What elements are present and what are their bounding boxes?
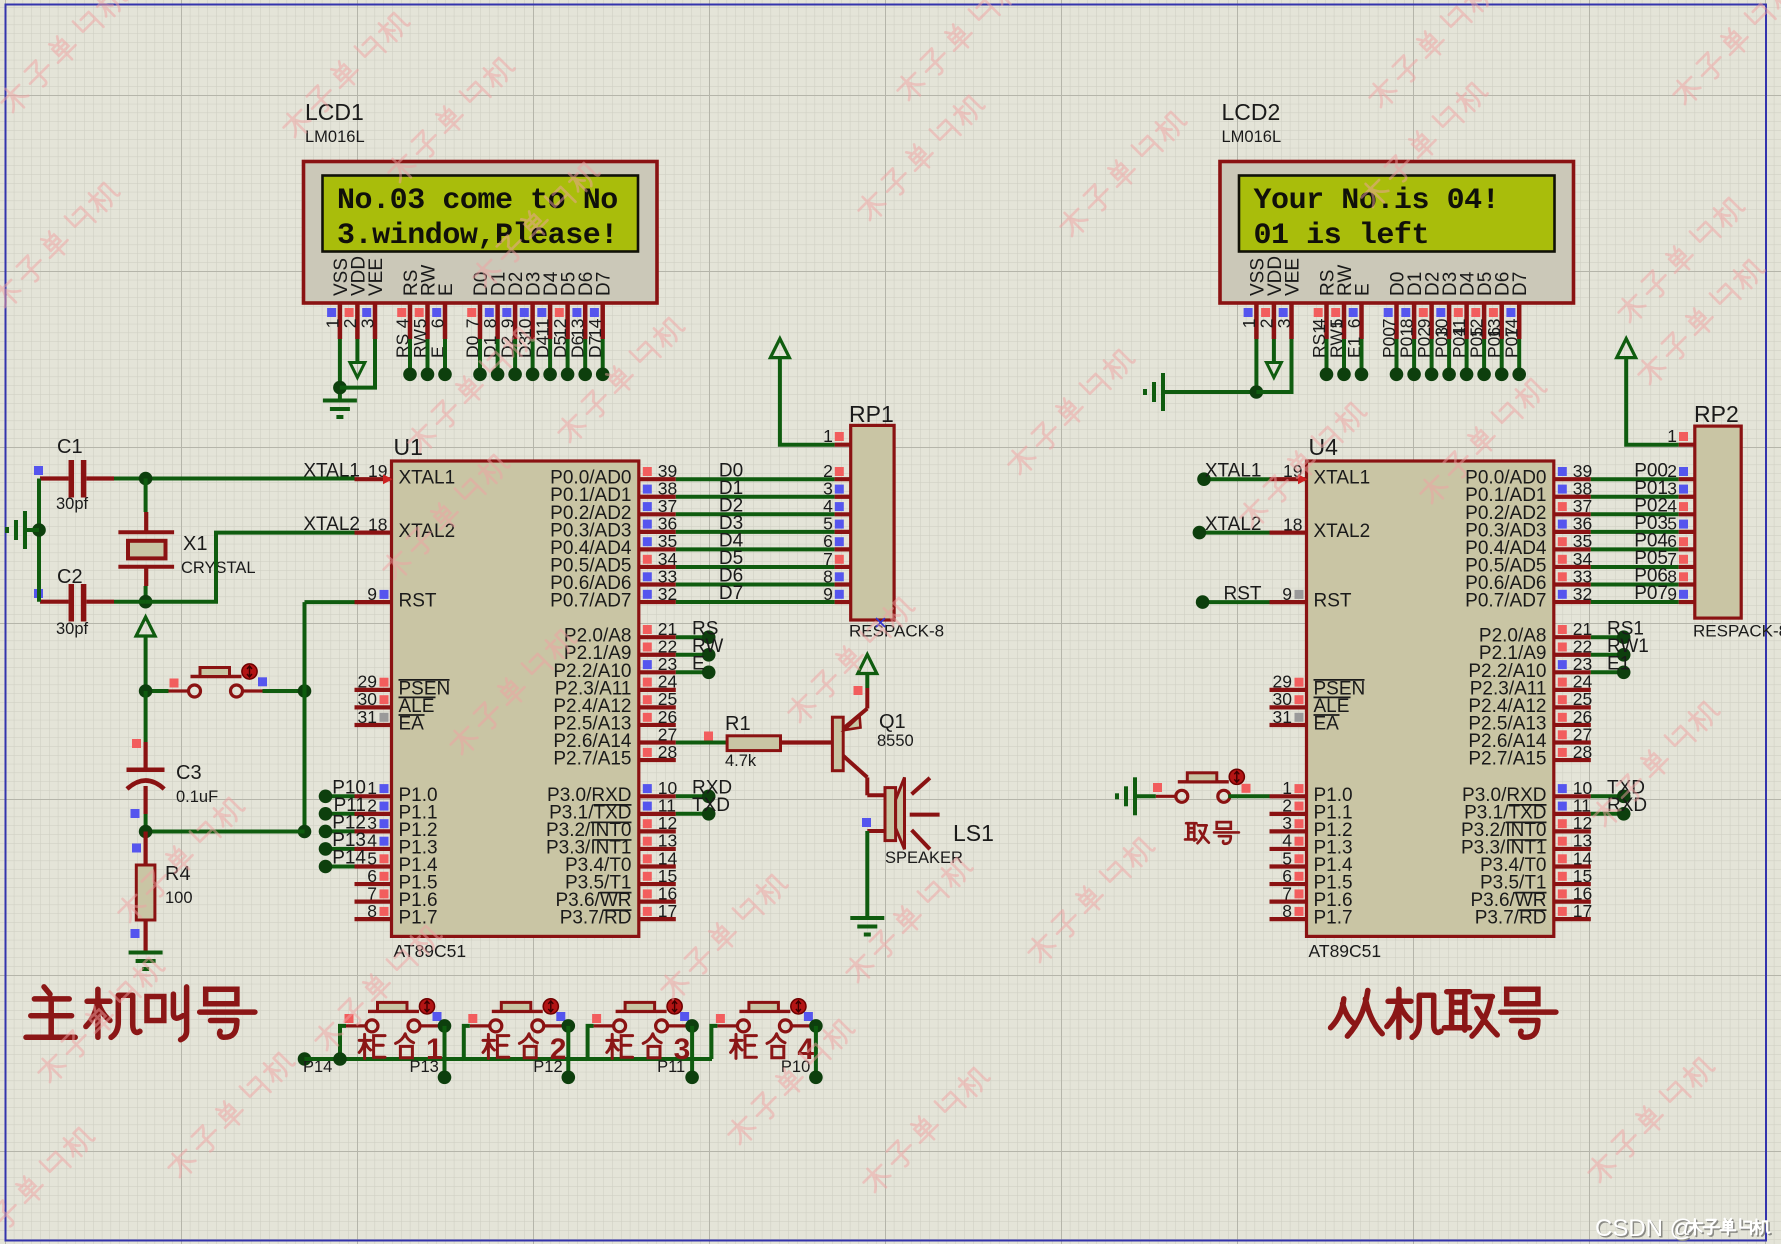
label 柜台4 (731, 1033, 815, 1066)
svg-text:32: 32 (658, 584, 677, 604)
svg-text:3: 3 (1274, 319, 1294, 329)
svg-text:RST: RST (1224, 583, 1262, 604)
ground below LS1 (850, 918, 884, 935)
wire XTAL1 net: C1 to U1.19 (114, 472, 355, 486)
svg-text:VEE: VEE (366, 258, 387, 296)
reset button (169, 664, 263, 697)
U4 pin 7 P1.6 (1270, 883, 1307, 903)
wire RP2 pin1 to power (1626, 357, 1679, 445)
state square button3 left (592, 1014, 601, 1023)
caption 从机取号 (1331, 989, 1556, 1037)
svg-text:R1: R1 (725, 713, 751, 735)
LCD LCD1 pin 10 (D3) (515, 272, 545, 358)
U4 pin 33 P0.6 (1554, 566, 1592, 586)
wire net P05 (U4 P0.5 to RP2 pin 7) (1591, 548, 1695, 569)
svg-text:17: 17 (1573, 901, 1592, 921)
wire LCD1 D4 stub end (543, 339, 557, 381)
LCD LCD2 pin 2 (VDD) (1256, 256, 1286, 339)
U4 pin 29 PSEN (1270, 672, 1307, 692)
wire button1 left lead (333, 1026, 347, 1066)
svg-text:CRYSTAL: CRYSTAL (181, 559, 256, 577)
caption 主机叫号 (26, 987, 255, 1040)
svg-text:9: 9 (823, 584, 833, 604)
mcu U4 AT89C51 (1307, 434, 1554, 961)
state square reset button right (258, 677, 267, 686)
LCD LCD1 pin 13 (D6) (568, 272, 598, 358)
U4 pin 1 P1.0 (1270, 778, 1307, 798)
resistor R1 4.7k (725, 713, 832, 770)
svg-text:C3: C3 (176, 762, 202, 784)
LCD LCD1 pin 12 (D5) (550, 272, 580, 358)
LCD LCD2 pin 10 (D3) (1432, 272, 1462, 358)
LCD LCD2 pin 6 (E) (1344, 283, 1374, 358)
state square R4 bottom (131, 929, 140, 938)
U4 pin 35 P0.4 (1554, 531, 1592, 551)
wire LCD2 VSS to ground (1165, 339, 1263, 399)
wire LCD1 RS stub end (403, 339, 417, 381)
U1 pin 12 P3.2 (639, 813, 677, 833)
state square button4 left (716, 1014, 725, 1023)
U4 pin 31 EA (1270, 707, 1307, 727)
state square button3 right (680, 1012, 689, 1021)
U1 pin 5 P1.4 (332, 848, 391, 869)
U4 pin 27 P2.6 (1554, 724, 1592, 744)
wire button right to RST riser (263, 684, 312, 698)
svg-text:E: E (692, 654, 705, 675)
power arrow (reset vcc) (136, 617, 155, 691)
power arrow above RP1 (770, 339, 789, 358)
U4 pin 9 RST (1270, 584, 1307, 604)
wire counter bus (305, 1057, 713, 1061)
svg-text:XTAL1: XTAL1 (399, 468, 456, 489)
wire net D0 (U1 P0.0 to RP1 pin 2) (676, 460, 851, 481)
wire net P10 (319, 790, 355, 804)
wire button2 left lead (464, 1026, 470, 1059)
wire net P12 (319, 825, 355, 839)
svg-text:AT89C51: AT89C51 (1309, 941, 1382, 961)
wire button3 left lead (588, 1026, 594, 1059)
ground left of C1/C2 (7, 511, 39, 549)
wire net P14 (319, 860, 355, 874)
svg-text:14: 14 (585, 318, 605, 338)
wire net RW1 (1591, 636, 1649, 662)
counter button 4 (717, 999, 811, 1032)
U1 pin 21 P2.0 (639, 619, 677, 639)
U1 pin 24 P2.3 (639, 672, 678, 692)
svg-text:28: 28 (1573, 742, 1592, 762)
U4 pin 12 P3.2 (1554, 813, 1592, 833)
wire button2 right drop (P12) (533, 1019, 575, 1084)
U1 pin 7 P1.6 (355, 883, 392, 903)
wire LS1 to ground (865, 831, 869, 918)
U1 pin 17 P3.7 (639, 901, 677, 921)
power arrow above RP2 (1617, 339, 1636, 358)
svg-text:4.7k: 4.7k (725, 752, 757, 770)
svg-text:30pf: 30pf (56, 620, 89, 638)
state square button2 left (468, 1014, 477, 1023)
svg-text:P1.7: P1.7 (399, 908, 438, 929)
RP1 pin 1 (823, 426, 851, 446)
svg-text:9: 9 (1282, 584, 1292, 604)
svg-text:RST: RST (399, 591, 437, 612)
wire RP1 pin1 to power (780, 357, 835, 445)
capacitor C3 0.1uF (127, 691, 219, 832)
wire net TXD (U4) (1591, 778, 1645, 804)
node XTAL2 label (303, 514, 360, 535)
U4 pin 17 P3.7 (1554, 901, 1592, 921)
wire net RST (U4) (1196, 583, 1270, 609)
U4 pin 32 P0.7 (1554, 584, 1592, 604)
counter button 1 (346, 999, 440, 1032)
wire LCD2 P07 stub end (1512, 339, 1526, 381)
state square C3 top (132, 739, 141, 748)
svg-text:XTAL2: XTAL2 (1314, 521, 1371, 542)
svg-text:30pf: 30pf (56, 495, 89, 513)
wire net RXD (U4) (1591, 795, 1647, 821)
wire LCD2 P04 stub end (1460, 339, 1474, 381)
ground below R4 (129, 953, 163, 970)
svg-text:C1: C1 (57, 436, 83, 458)
wire C2 to node (114, 600, 146, 604)
U4 pin 22 P2.1 (1554, 637, 1592, 657)
wire net P04 (U4 P0.4 to RP2 pin 6) (1591, 531, 1695, 552)
LCD LCD2 LM016L (1220, 99, 1574, 303)
U4 pin 36 P0.3 (1554, 514, 1592, 534)
U1 pin 23 P2.2 (639, 654, 677, 674)
wire take-button to U4 pin1 (1228, 794, 1269, 798)
svg-text:3: 3 (358, 319, 378, 329)
wire net D3 (U1 P0.3 to RP1 pin 5) (676, 513, 851, 534)
state square button2 right (556, 1012, 565, 1021)
wire net XTAL1 (U4) (1197, 460, 1269, 486)
U4 pin 26 P2.5 (1554, 707, 1592, 727)
wire net P02 (U4 P0.2 to RP2 pin 4) (1591, 496, 1695, 517)
speaker LS1 (867, 777, 994, 867)
mcu U1 AT89C51 (392, 434, 639, 961)
svg-text:01 is left: 01 is left (1254, 219, 1430, 253)
power (VDD down-arrow) LCD1 pin 2 (350, 339, 365, 378)
LCD LCD1 pin 5 (RW) (410, 265, 440, 358)
U1 pin 3 P1.2 (332, 813, 391, 834)
LCD LCD2 pin 14 (D7) (1502, 272, 1532, 358)
ground left of take-button (1117, 777, 1135, 815)
U1 pin 30 ALE (355, 689, 392, 709)
wire net D5 (U1 P0.5 to RP1 pin 7) (676, 548, 851, 569)
wire LCD2 P01 stub end (1407, 339, 1421, 381)
wire net RS (676, 618, 719, 644)
svg-text:1: 1 (426, 1033, 443, 1066)
wire LCD1 D5 stub end (561, 339, 575, 381)
U4 pin 2 P1.1 (1270, 796, 1307, 816)
U1 pin 9 RST (355, 584, 392, 604)
svg-text:D7: D7 (719, 583, 743, 604)
LCD LCD2 pin 7 (D0) (1379, 272, 1409, 358)
U4 pin 14 P3.4 (1554, 848, 1593, 868)
svg-text:31: 31 (1273, 707, 1292, 727)
svg-text:18: 18 (1283, 514, 1302, 534)
U4 pin 11 P3.1 (1554, 796, 1591, 816)
counter button 2 (470, 999, 564, 1032)
LCD LCD1 pin 3 (VEE) (358, 258, 388, 339)
svg-text:P0.7/AD7: P0.7/AD7 (550, 591, 631, 612)
U1 pin 28 P2.7 (639, 742, 677, 762)
U1 pin 15 P3.5 (639, 866, 677, 886)
U1 pin 2 P1.1 (334, 795, 392, 816)
svg-text:EA: EA (399, 714, 425, 735)
LCD LCD1 pin 11 (D4) (533, 271, 563, 358)
LCD LCD2 pin 13 (D6) (1484, 272, 1514, 358)
wire LCD1 D1 stub end (491, 339, 505, 381)
wire net P01 (U4 P0.1 to RP2 pin 3) (1591, 478, 1695, 499)
state square LS1 bottom pin (862, 818, 871, 827)
wire button3 right drop (P11) (657, 1019, 699, 1084)
state square reset button left (170, 679, 179, 688)
wire LCD2 P05 stub end (1477, 339, 1491, 381)
state square R4 top (132, 844, 141, 853)
U1 pin 13 P3.3 (639, 831, 677, 851)
wire take-button to ground (1137, 794, 1156, 798)
transistor Q1 8550 (PNP) (832, 688, 913, 795)
U4 pin 28 P2.7 (1554, 742, 1592, 762)
LCD LCD1 pin 9 (D2) (498, 272, 528, 358)
svg-text:0.1uF: 0.1uF (176, 788, 218, 806)
U4 pin 19 XTAL1 (1270, 461, 1308, 484)
svg-text:8550: 8550 (877, 732, 914, 750)
U4 pin 37 P0.2 (1554, 496, 1592, 516)
crystal X1 (118, 512, 255, 586)
resistor pack RP1 RESPACK-8 (849, 401, 944, 641)
state square take-button left (1153, 783, 1162, 792)
LCD LCD1 pin 7 (D0) (463, 272, 493, 358)
svg-text:17: 17 (658, 901, 677, 921)
wire net P13 (319, 842, 355, 856)
U4 pin 25 P2.4 (1554, 689, 1592, 709)
svg-text:Q1: Q1 (879, 711, 906, 733)
U4 pin 8 P1.7 (1270, 901, 1307, 921)
wire net XTAL2 (U4) (1193, 514, 1270, 540)
wire net P03 (U4 P0.3 to RP2 pin 5) (1591, 513, 1695, 534)
U1 pin 27 P2.6 (639, 724, 677, 744)
LCD LCD1 pin 2 (VDD) (340, 256, 370, 339)
svg-text:P07: P07 (1634, 583, 1668, 604)
wire net P11 (319, 807, 355, 821)
wire LCD2 RS1 stub end (1320, 339, 1334, 381)
U4 pin 5 P1.4 (1270, 848, 1307, 868)
wire LCD1 D0 stub end (473, 339, 487, 381)
U1 pin 25 P2.4 (639, 689, 677, 709)
U4 pin 18 XTAL2 (1270, 514, 1307, 534)
U4 pin 24 P2.3 (1554, 672, 1593, 692)
svg-text:6: 6 (428, 319, 448, 329)
svg-text:LCD1: LCD1 (305, 99, 364, 125)
state square net R1 base (704, 732, 713, 741)
resistor pack RP2 RESPACK-8 (1693, 401, 1781, 641)
svg-text:P2.7/A15: P2.7/A15 (1468, 749, 1546, 770)
wire LCD1 RW stub end (421, 339, 435, 381)
U1 pin 10 P3.0 (639, 778, 678, 798)
U1 pin 1 P1.0 (332, 778, 391, 799)
LCD LCD2 pin 11 (D4) (1449, 271, 1479, 358)
U1 pin 29 PSEN (355, 672, 392, 692)
power arrow above Q1 (858, 655, 877, 689)
power (VDD down-arrow) LCD2 pin 2 (1266, 339, 1281, 378)
svg-text:RST: RST (1314, 591, 1352, 612)
svg-text:XTAL1: XTAL1 (1314, 468, 1371, 489)
label 柜台3 (607, 1033, 690, 1066)
wire LCD1 D6 stub end (578, 339, 592, 381)
capacitor C1 30pf (40, 436, 114, 513)
svg-text:LCD2: LCD2 (1222, 99, 1281, 125)
wire LCD1 D3 stub end (526, 339, 540, 381)
LCD LCD2 pin 8 (D1) (1397, 272, 1427, 358)
wire net D7 (U1 P0.7 to RP1 pin 9) (676, 583, 851, 604)
U4 pin 10 P3.0 (1554, 778, 1593, 798)
U1 pin 22 P2.1 (639, 637, 677, 657)
wire LCD1 E stub end (438, 339, 452, 381)
wire net P07 (U4 P0.7 to RP2 pin 9) (1591, 583, 1695, 604)
wire net P06 (U4 P0.6 to RP2 pin 8) (1591, 566, 1695, 587)
svg-text:LM016L: LM016L (305, 128, 365, 146)
take-number button (U4 P1.0) (1156, 769, 1250, 802)
ground below LCD1 VSS (323, 401, 357, 418)
wire button1 right drop (P13) (410, 1019, 452, 1084)
wire net RXD (676, 778, 732, 804)
svg-text:P2.7/A15: P2.7/A15 (553, 749, 631, 770)
svg-text:RESPACK-8: RESPACK-8 (1693, 622, 1781, 641)
U4 pin 34 P0.5 (1554, 549, 1593, 569)
wire LCD2 P00 stub end (1390, 339, 1404, 381)
wire net D4 (U1 P0.4 to RP1 pin 6) (676, 531, 851, 552)
LCD LCD1 pin 8 (D1) (480, 272, 510, 358)
U1 pin 11 P3.1 (639, 796, 676, 816)
svg-text:TXD: TXD (692, 795, 730, 816)
wire LCD2 VEE to VSS node (1256, 339, 1291, 392)
U1 pin 39 P0.0 (639, 461, 677, 481)
label 取号 (1185, 822, 1239, 844)
svg-text:9: 9 (367, 584, 377, 604)
svg-text:LS1: LS1 (953, 820, 994, 846)
wire XTAL2 net: node to U1.18 (146, 533, 355, 602)
LCD LCD1 pin 4 (RS) (393, 270, 423, 358)
U1 pin 8 P1.7 (355, 901, 392, 921)
svg-text:E: E (1353, 283, 1374, 296)
wire U1 P2.6 to R1 (676, 741, 727, 745)
U1 pin 19 XTAL1 (355, 461, 393, 484)
node C3/R4/RST junction (139, 825, 305, 839)
svg-text:EA: EA (1314, 714, 1340, 735)
wire crystal bottom to C2 node (139, 586, 153, 609)
wire net RW (676, 636, 724, 662)
wire RST riser (298, 602, 355, 838)
U1 pin 37 P0.2 (639, 496, 677, 516)
svg-text:RXD: RXD (1607, 795, 1647, 816)
wire LCD2 E1 stub end (1355, 339, 1369, 381)
svg-text:18: 18 (368, 514, 387, 534)
svg-text:E1: E1 (1607, 654, 1630, 675)
state square button1 right (433, 1012, 442, 1021)
U4 pin 13 P3.3 (1554, 831, 1592, 851)
svg-text:RP2: RP2 (1694, 401, 1739, 427)
LCD LCD1 pin 6 (E) (428, 283, 458, 358)
svg-text:XTAL1: XTAL1 (1205, 460, 1262, 481)
wire LCD2 RW1 stub end (1337, 339, 1351, 381)
LCD LCD2 pin 3 (VEE) (1274, 258, 1304, 339)
svg-text:LM016L: LM016L (1222, 128, 1282, 146)
svg-text:3.window,Please!: 3.window,Please! (337, 219, 618, 253)
svg-text:3: 3 (674, 1033, 691, 1066)
svg-text:2: 2 (550, 1033, 567, 1066)
U1 pin 18 XTAL2 (355, 514, 392, 534)
svg-text:CSDN @: CSDN @ (1595, 1215, 1694, 1242)
U4 pin 23 P2.2 (1554, 654, 1592, 674)
U1 pin 26 P2.5 (639, 707, 677, 727)
svg-text:D7: D7 (1510, 272, 1531, 296)
svg-text:100: 100 (165, 889, 193, 907)
U4 pin 39 P0.0 (1554, 461, 1592, 481)
wire net D1 (U1 P0.1 to RP1 pin 3) (676, 478, 851, 499)
svg-text:P1.7: P1.7 (1314, 908, 1353, 929)
U4 pin 6 P1.5 (1270, 866, 1307, 886)
svg-text:E: E (436, 283, 457, 296)
U4 pin 21 P2.0 (1554, 619, 1592, 639)
state square Q1 emitter (854, 686, 863, 695)
wire C1/C2 left vertical (32, 479, 46, 602)
wire net RS1 (1591, 618, 1644, 644)
U1 pin 36 P0.3 (639, 514, 677, 534)
wire net TXD (676, 795, 730, 821)
wire LCD2 P02 stub end (1425, 339, 1439, 381)
U1 pin 38 P0.1 (639, 479, 677, 499)
U4 pin 30 ALE (1270, 689, 1307, 709)
U1 pin 16 P3.6 (639, 883, 677, 903)
svg-text:RP1: RP1 (849, 401, 894, 427)
U1 pin 34 P0.5 (639, 549, 678, 569)
wire LCD1 D2 stub end (508, 339, 522, 381)
LCD LCD2 pin 1 (VSS) (1239, 258, 1269, 339)
LCD LCD1 pin 1 (VSS) (322, 258, 352, 339)
svg-text:VEE: VEE (1283, 258, 1304, 296)
label 柜台1 (359, 1033, 442, 1066)
U4 pin 15 P3.5 (1554, 866, 1592, 886)
svg-text:32: 32 (1573, 584, 1592, 604)
state square take-button right (1242, 784, 1251, 793)
LCD LCD2 pin 5 (RW) (1327, 265, 1357, 358)
LCD LCD2 pin 12 (D5) (1467, 272, 1497, 358)
wire LCD2 P03 stub end (1442, 339, 1456, 381)
U1 pin 4 P1.3 (332, 830, 391, 851)
svg-text:28: 28 (658, 742, 677, 762)
LCD LCD2 pin 4 (RS) (1309, 270, 1339, 358)
svg-text:P0.7/AD7: P0.7/AD7 (1465, 591, 1546, 612)
svg-text:6: 6 (1344, 319, 1364, 329)
state square C2 left (34, 589, 43, 598)
svg-text:9: 9 (1667, 584, 1677, 604)
wire crystal top (144, 479, 148, 513)
U4 pin 38 P0.1 (1554, 479, 1592, 499)
state square button4 right (804, 1012, 813, 1021)
RP2 pin 1 (1667, 426, 1695, 446)
svg-text:D7: D7 (594, 272, 615, 296)
svg-text:X1: X1 (183, 533, 207, 555)
wire net D2 (U1 P0.2 to RP1 pin 4) (676, 496, 851, 517)
wire button4 left lead (711, 1026, 717, 1059)
LCD LCD1 pin 14 (D7) (585, 272, 615, 358)
node P14 bus start (298, 1052, 333, 1076)
wire button4 right drop (P10) (781, 1019, 823, 1084)
wire LCD1 VSS to ground (333, 339, 347, 401)
U4 pin 3 P1.2 (1270, 813, 1307, 833)
wire net E1 (1591, 654, 1631, 680)
